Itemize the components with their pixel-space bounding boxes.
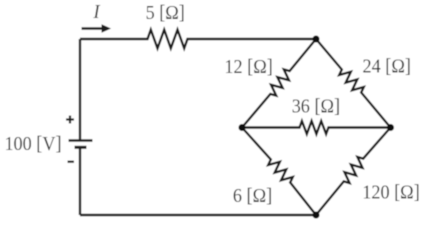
- svg-text:12 [Ω]: 12 [Ω]: [224, 56, 272, 78]
- svg-text:5 [Ω]: 5 [Ω]: [146, 2, 185, 24]
- svg-text:100 [V]: 100 [V]: [4, 133, 61, 155]
- svg-text:24 [Ω]: 24 [Ω]: [363, 56, 411, 78]
- svg-text:6 [Ω]: 6 [Ω]: [233, 185, 272, 207]
- svg-text:120 [Ω]: 120 [Ω]: [362, 182, 419, 204]
- svg-text:36 [Ω]: 36 [Ω]: [292, 96, 340, 118]
